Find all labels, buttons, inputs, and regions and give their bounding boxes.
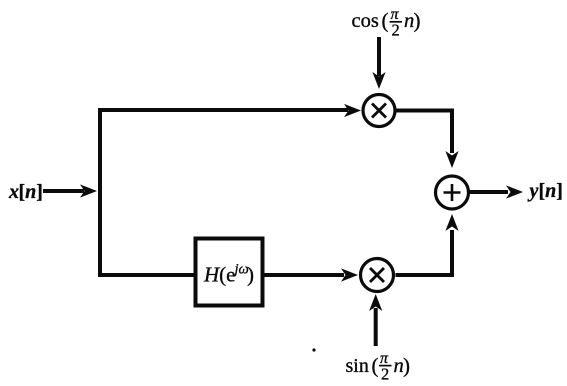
wire: cos input down arrow — [377, 37, 381, 76]
multiplier M1 (top x) — [363, 95, 395, 127]
block H(e^jw) — [196, 239, 263, 306]
node: branch junction vertical wire — [98, 108, 102, 277]
svg-text:x: x — [8, 181, 19, 203]
wire: top multiplier to adder — [395, 111, 452, 154]
wire: top branch horizontal — [98, 108, 348, 112]
svg-text:[n]: [n] — [19, 181, 43, 203]
svg-text:H(e: H(e — [203, 263, 236, 287]
wire: H box to lower multiplier — [262, 273, 344, 277]
svg-text:(: ( — [372, 354, 379, 378]
adder A1 (+) — [436, 176, 469, 209]
svg-text:): ) — [247, 263, 254, 287]
svg-text:(: ( — [382, 9, 389, 33]
svg-text:2: 2 — [381, 365, 389, 384]
svg-text:y: y — [528, 180, 539, 202]
wire: lower multiplier to adder — [396, 230, 453, 275]
svg-text:): ) — [403, 354, 410, 378]
wire: x[n] input arrow — [43, 189, 84, 193]
stray dot — [312, 348, 315, 351]
svg-text:): ) — [414, 9, 421, 33]
svg-text:[n]: [n] — [539, 180, 563, 202]
svg-text:sin: sin — [346, 355, 369, 377]
svg-text:2: 2 — [392, 21, 400, 40]
wire: bottom branch to H box — [98, 273, 196, 277]
wire: output arrow — [470, 190, 509, 194]
svg-text:cos: cos — [352, 10, 379, 32]
wire: sin input up arrow — [374, 308, 378, 346]
multiplier M2 (lower x) — [361, 259, 394, 292]
